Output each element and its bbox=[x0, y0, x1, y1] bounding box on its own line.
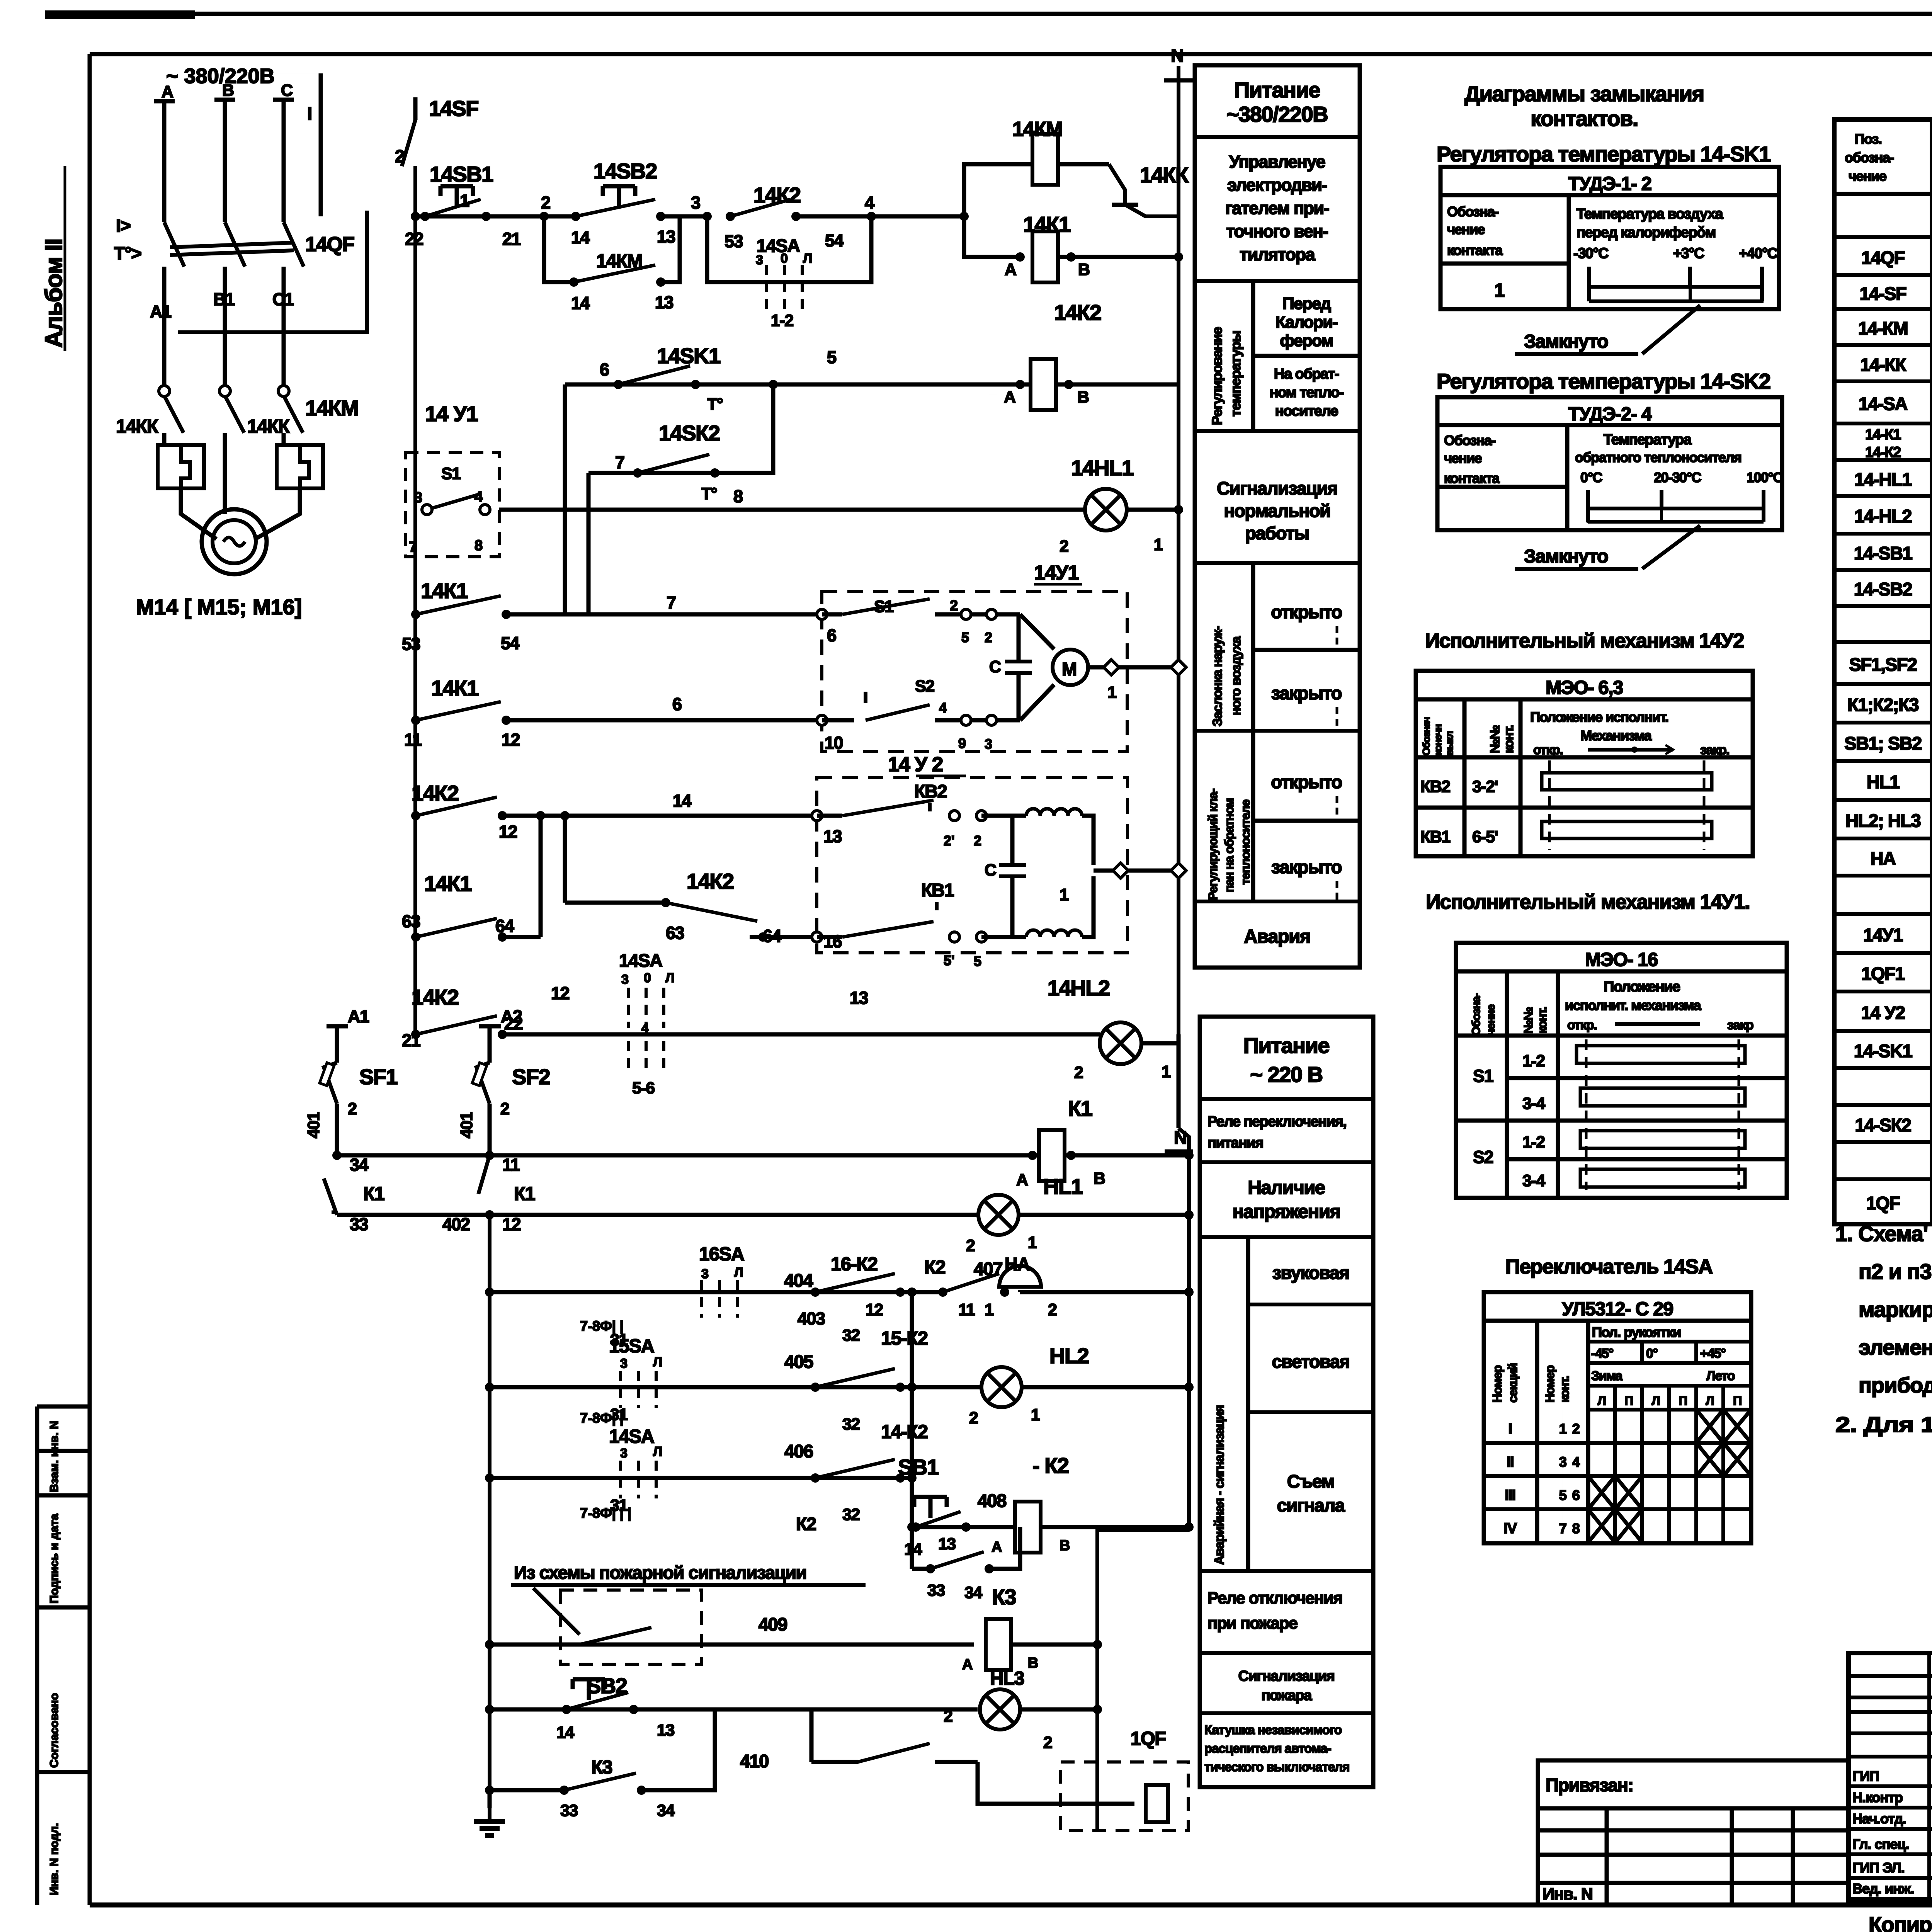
branch 14SK2 wire bbox=[588, 471, 711, 475]
dash tick under закрыто 1 bbox=[1336, 707, 1338, 729]
divider rotated cell Аварийная сигнализация bbox=[1246, 1237, 1250, 1571]
svg-text:1: 1 bbox=[1028, 1233, 1037, 1252]
vertical feed lower part bbox=[563, 816, 567, 903]
svg-text:В1: В1 bbox=[213, 289, 235, 309]
svg-text:3: 3 bbox=[620, 1356, 628, 1371]
svg-text:п2 и п3 схема аналогична за: п2 и п3 схема аналогична за исключением … bbox=[1859, 1259, 1932, 1284]
svg-text:0: 0 bbox=[781, 251, 788, 266]
svg-text:14-HL2: 14-HL2 bbox=[1854, 506, 1912, 526]
svg-text:1-2: 1-2 bbox=[771, 311, 793, 330]
upper small rows of signature part bbox=[1849, 1674, 1932, 1678]
svg-text:54: 54 bbox=[825, 231, 844, 250]
svg-text:2': 2' bbox=[944, 833, 955, 849]
svg-text:Наличие: Наличие bbox=[1248, 1177, 1325, 1198]
svg-text:2: 2 bbox=[1060, 537, 1068, 556]
svg-text:406: 406 bbox=[784, 1441, 813, 1461]
rung 409 wire bbox=[490, 1643, 974, 1647]
svg-text:1: 1 bbox=[1494, 280, 1504, 301]
thermal element 14KK pole C bbox=[277, 445, 323, 488]
svg-text:~ 220 В: ~ 220 В bbox=[1250, 1062, 1322, 1087]
svg-text:НА: НА bbox=[1871, 848, 1896, 869]
MEO-16 header row line bbox=[1456, 1034, 1787, 1038]
svg-text:14К2: 14К2 bbox=[687, 869, 734, 893]
svg-text:КВ1: КВ1 bbox=[1420, 828, 1450, 846]
signature row Н.контр bbox=[1849, 1806, 1932, 1810]
svg-text:Л: Л bbox=[665, 971, 675, 985]
svg-text:14-SВ2: 14-SВ2 bbox=[1854, 579, 1912, 599]
wire rung1 to coil block bbox=[871, 214, 964, 219]
svg-text:III: III bbox=[1505, 1487, 1515, 1503]
svg-text:ном тепло-: ном тепло- bbox=[1269, 384, 1344, 401]
svg-text:На обрат-: На обрат- bbox=[1274, 366, 1339, 382]
svg-text:тилятора: тилятора bbox=[1240, 245, 1315, 264]
svg-text:16-К2: 16-К2 bbox=[831, 1254, 878, 1275]
vertical bus 403 down bbox=[910, 1292, 914, 1569]
svg-text:ТУДЭ-1- 2: ТУДЭ-1- 2 bbox=[1568, 173, 1651, 194]
svg-text:№№: №№ bbox=[1521, 1007, 1535, 1034]
svg-text:5: 5 bbox=[974, 953, 981, 969]
svg-text:402: 402 bbox=[442, 1214, 470, 1234]
rung 13 wire bbox=[502, 1032, 1100, 1037]
svg-text:14КК: 14КК bbox=[1140, 163, 1189, 187]
svg-text:ного воздуха: ного воздуха bbox=[1229, 636, 1243, 716]
MEO-6.3 arrow bbox=[1588, 748, 1673, 752]
svg-text:А: А bbox=[162, 83, 173, 101]
svg-text:носителе: носителе bbox=[1275, 403, 1338, 419]
svg-text:№№: №№ bbox=[1488, 725, 1502, 753]
svg-text:М14 [ М15; М16]: М14 [ М15; М16] bbox=[136, 595, 302, 619]
svg-text:5': 5' bbox=[944, 952, 955, 968]
svg-text:конт.: конт. bbox=[1558, 1376, 1571, 1403]
svg-text:408: 408 bbox=[978, 1490, 1006, 1511]
junction to 14KM coil branch bbox=[959, 212, 969, 221]
svg-text:Съем: Съем bbox=[1287, 1471, 1335, 1492]
fire alarm contact bbox=[580, 1628, 651, 1645]
svg-text:откр.: откр. bbox=[1567, 1018, 1597, 1032]
MEO-16 dashed marks bbox=[1585, 1039, 1588, 1190]
svg-text:4: 4 bbox=[1572, 1454, 1580, 1470]
svg-text:КВ1: КВ1 bbox=[921, 880, 954, 900]
svg-text:С: С bbox=[989, 658, 1001, 676]
signature row Гл. спец. bbox=[1849, 1852, 1932, 1856]
svg-text:10: 10 bbox=[825, 733, 843, 753]
svg-text:1QF1: 1QF1 bbox=[1861, 963, 1905, 984]
svg-text:SF2: SF2 bbox=[512, 1065, 550, 1089]
contact of 14SB1 bbox=[420, 212, 430, 221]
svg-text:12: 12 bbox=[502, 1214, 521, 1234]
svg-text:НL2; НL3: НL2; НL3 bbox=[1845, 810, 1921, 831]
svg-text:2: 2 bbox=[969, 1409, 978, 1427]
contact 15-K2 bbox=[811, 1383, 820, 1392]
svg-text:401: 401 bbox=[457, 1112, 476, 1138]
svg-text:пан на обратном: пан на обратном bbox=[1222, 799, 1236, 893]
svg-text:64: 64 bbox=[495, 916, 514, 936]
junction on N rail bbox=[1171, 660, 1186, 675]
svg-text:Обознач: Обознач bbox=[1420, 717, 1432, 755]
svg-text:Обозна-: Обозна- bbox=[1444, 432, 1495, 448]
svg-text:Копир.: Копир. bbox=[1869, 1912, 1932, 1932]
contact 14K1 on rung 7 bbox=[411, 610, 420, 619]
svg-text:Регулятора температуры 14-SK1: Регулятора температуры 14-SK1 bbox=[1437, 142, 1770, 166]
start button 14SB2 bbox=[603, 184, 635, 189]
svg-text:В: В bbox=[1060, 1537, 1070, 1554]
svg-text:чение: чение bbox=[1485, 1004, 1497, 1036]
svg-text:14КК: 14КК bbox=[247, 416, 290, 437]
signature row Вед. инж. bbox=[1849, 1897, 1932, 1901]
svg-text:14SB1: 14SB1 bbox=[430, 162, 493, 186]
svg-text:11: 11 bbox=[404, 730, 422, 750]
wire rung1 down to 14K1 coil bbox=[964, 216, 1020, 257]
thermal element 14KK pole A bbox=[158, 445, 204, 488]
svg-text:SB1: SB1 bbox=[898, 1455, 939, 1479]
svg-text:14-SK1: 14-SK1 bbox=[1854, 1041, 1912, 1061]
svg-text:13: 13 bbox=[938, 1535, 956, 1553]
svg-text:Нач.отд.: Нач.отд. bbox=[1852, 1811, 1906, 1827]
svg-text:34: 34 bbox=[657, 1801, 675, 1820]
svg-text:Аварийная - сигнализация: Аварийная - сигнализация bbox=[1212, 1405, 1227, 1565]
wire lower to caps bbox=[935, 718, 1020, 723]
svg-text:Температура: Температура bbox=[1604, 432, 1692, 448]
svg-text:1: 1 bbox=[1162, 1063, 1170, 1081]
svg-text:3: 3 bbox=[756, 253, 763, 267]
svg-text:МЭО- 6,3: МЭО- 6,3 bbox=[1546, 677, 1623, 698]
svg-text:14: 14 bbox=[571, 293, 590, 313]
svg-text:14-SК2: 14-SК2 bbox=[1855, 1115, 1911, 1135]
svg-text:С1: С1 bbox=[272, 289, 294, 309]
svg-text:4: 4 bbox=[865, 193, 874, 213]
svg-text:2: 2 bbox=[966, 1236, 975, 1255]
svg-text:5: 5 bbox=[827, 347, 836, 367]
svg-text:15-К2: 15-К2 bbox=[881, 1328, 928, 1349]
lamp HL2 section2 bbox=[907, 1383, 917, 1392]
svg-text:63: 63 bbox=[402, 912, 420, 931]
svg-text:7: 7 bbox=[615, 452, 624, 472]
svg-text:13: 13 bbox=[657, 227, 675, 247]
svg-text:15SА: 15SА bbox=[609, 1336, 655, 1357]
svg-text:14: 14 bbox=[556, 1723, 574, 1742]
svg-text:14 У1: 14 У1 bbox=[425, 401, 478, 426]
svg-text:14SК2: 14SК2 bbox=[659, 421, 719, 445]
MEO-6.3 dashed travel marks bbox=[1548, 760, 1551, 850]
svg-text:А: А bbox=[962, 1656, 973, 1673]
svg-text:1: 1 bbox=[1559, 1421, 1567, 1437]
wire 403 to K2 contact and bell bbox=[912, 1290, 943, 1294]
branch 14SK2 vertical bbox=[587, 473, 591, 614]
svg-text:Вед. инж.: Вед. инж. bbox=[1852, 1881, 1914, 1896]
svg-text:Л: Л bbox=[803, 251, 812, 266]
svg-text:Т°: Т° bbox=[707, 395, 723, 413]
svg-text:14КМ: 14КМ bbox=[305, 396, 358, 420]
svg-text:К3: К3 bbox=[992, 1585, 1016, 1609]
svg-text:5: 5 bbox=[961, 629, 969, 645]
wire SF1 down bbox=[335, 1104, 339, 1155]
svg-text:12: 12 bbox=[866, 1301, 883, 1319]
svg-text:HL2: HL2 bbox=[1049, 1344, 1088, 1368]
lamp 14HL1 bbox=[1085, 489, 1127, 531]
svg-text:33: 33 bbox=[560, 1801, 578, 1820]
svg-text:Л: Л bbox=[1652, 1394, 1660, 1408]
coil 14K1 bbox=[1032, 231, 1058, 282]
svg-text:закрыто: закрыто bbox=[1271, 857, 1342, 877]
svg-text:чение: чение bbox=[1444, 450, 1482, 466]
lamp HL1 bbox=[978, 1195, 1019, 1235]
function column 1 outline bbox=[1195, 65, 1360, 968]
svg-text:14-КМ: 14-КМ bbox=[1858, 318, 1908, 338]
svg-text:405: 405 bbox=[784, 1351, 813, 1372]
release coil rect bbox=[1146, 1785, 1168, 1822]
svg-text:1: 1 bbox=[985, 1301, 993, 1319]
svg-text:33: 33 bbox=[927, 1581, 945, 1600]
svg-text:Л: Л bbox=[653, 1355, 662, 1369]
svg-text:открыто: открыто bbox=[1271, 772, 1342, 792]
svg-text:питания: питания bbox=[1207, 1135, 1263, 1151]
TUDE-1-2 row line bbox=[1440, 262, 1569, 266]
dashed box of release coil bbox=[1061, 1762, 1188, 1831]
svg-text:14: 14 bbox=[904, 1540, 922, 1559]
svg-text:КВ2: КВ2 bbox=[914, 781, 947, 801]
left rail of control ladder bbox=[413, 166, 417, 1034]
svg-text:В: В bbox=[222, 81, 234, 100]
svg-text:2: 2 bbox=[944, 1707, 952, 1726]
svg-text:Управленye: Управленye bbox=[1229, 152, 1325, 172]
svg-text:34: 34 bbox=[350, 1155, 369, 1175]
bypass vertical x1399 bbox=[539, 816, 543, 937]
svg-text:теплоносителе: теплоносителе bbox=[1238, 799, 1252, 885]
svg-text:маркировке цепей управления: маркировке цепей управления и позиционны… bbox=[1859, 1297, 1932, 1321]
contact 14K2 on rung 1 bbox=[726, 212, 735, 221]
svg-text:6: 6 bbox=[600, 360, 609, 379]
svg-text:33: 33 bbox=[350, 1214, 368, 1234]
TUDE-1-2 travel diagram bbox=[1587, 267, 1591, 301]
svg-text:S1: S1 bbox=[441, 464, 461, 483]
inner frame top line bbox=[90, 52, 1932, 56]
svg-text:1: 1 bbox=[1031, 1406, 1040, 1424]
function col row line 355 bbox=[1195, 135, 1360, 139]
svg-text:1. Схема' управления дана для: 1. Схема' управления дана для вентсистем… bbox=[1835, 1221, 1932, 1246]
svg-text:6: 6 bbox=[1572, 1487, 1580, 1503]
svg-text:4: 4 bbox=[474, 489, 483, 505]
signature row ГИП bbox=[1849, 1784, 1932, 1788]
svg-text:Положение исполнит.: Положение исполнит. bbox=[1530, 709, 1668, 725]
svg-text:54: 54 bbox=[501, 633, 520, 653]
svg-text:53: 53 bbox=[724, 231, 743, 251]
svg-text:перед калориферо̌м: перед калориферо̌м bbox=[1577, 224, 1716, 241]
table UP5312 outer bbox=[1484, 1292, 1751, 1543]
privyazan rows bbox=[1538, 1806, 1849, 1811]
svg-text:К2: К2 bbox=[924, 1257, 945, 1278]
rung 5 feed vertical from rung7 bbox=[563, 384, 567, 614]
svg-text:закрыто: закрыто bbox=[1271, 683, 1342, 703]
dash tick under открыто 2 bbox=[1336, 796, 1338, 818]
zamknuto arrow 2 bbox=[1642, 526, 1700, 569]
svg-text:14К1: 14К1 bbox=[421, 578, 468, 603]
wire coil K2 to N bbox=[1184, 1522, 1194, 1532]
motor M14 circle bbox=[202, 509, 267, 574]
actuator box 14U1 dashed outline bbox=[822, 592, 1127, 752]
svg-text:Зима: Зима bbox=[1591, 1369, 1623, 1383]
svg-text:HL1: HL1 bbox=[1043, 1174, 1083, 1199]
wire coil 14KM to 14KK contact bbox=[1058, 162, 1109, 167]
svg-text:Реле отключения: Реле отключения bbox=[1207, 1589, 1342, 1607]
wire 14SB1 to node 2 bbox=[486, 214, 576, 219]
svg-text:+3°С: +3°С bbox=[1673, 245, 1704, 262]
svg-text:14КК: 14КК bbox=[116, 416, 158, 437]
svg-text:II: II bbox=[1507, 1454, 1514, 1470]
svg-text:32: 32 bbox=[842, 1326, 860, 1345]
svg-text:409: 409 bbox=[759, 1614, 787, 1634]
svg-text:14К1: 14К1 bbox=[424, 871, 471, 896]
svg-text:К3: К3 bbox=[591, 1757, 612, 1778]
selector 14SA dashed marks bbox=[765, 265, 768, 309]
thermal contact 14KK in rung bbox=[1109, 164, 1125, 205]
svg-text:8: 8 bbox=[474, 537, 482, 554]
svg-text:14-К2: 14-К2 bbox=[881, 1422, 928, 1442]
wire lamp HL1 to N bbox=[1019, 1213, 1189, 1217]
self-hold bypass wire of 14KM bbox=[544, 216, 574, 282]
wire 14SB2 to node 3 bbox=[661, 214, 707, 219]
svg-text:2: 2 bbox=[1074, 1063, 1083, 1082]
wire to node 4 bbox=[796, 214, 871, 219]
svg-text:К1;К2;К3: К1;К2;К3 bbox=[1847, 694, 1918, 715]
svg-text:34: 34 bbox=[964, 1583, 982, 1602]
svg-text:1: 1 bbox=[1107, 683, 1116, 702]
svg-text:3-2': 3-2' bbox=[1472, 777, 1498, 796]
svg-text:14К2: 14К2 bbox=[412, 781, 459, 805]
wire motor to node 1 bbox=[1088, 665, 1179, 670]
svg-text:0: 0 bbox=[644, 971, 651, 985]
contact 14-K2 rung 406 bbox=[811, 1473, 820, 1483]
rung 7 wire bbox=[506, 612, 822, 617]
svg-text:Инв. N подл.: Инв. N подл. bbox=[48, 1823, 61, 1895]
svg-text:А1: А1 bbox=[150, 302, 171, 321]
svg-text:сигнала: сигнала bbox=[1277, 1495, 1345, 1515]
svg-text:3: 3 bbox=[1559, 1454, 1566, 1470]
svg-text:Замкнуто: Замкнуто bbox=[1524, 331, 1608, 352]
svg-text:14У1: 14У1 bbox=[1863, 925, 1903, 945]
svg-text:конечн: конечн bbox=[1432, 724, 1444, 755]
privyazan vertical dividers bbox=[1605, 1808, 1609, 1905]
svg-text:Номер: Номер bbox=[1490, 1365, 1504, 1403]
svg-text:3: 3 bbox=[701, 1267, 709, 1281]
svg-text:3: 3 bbox=[620, 1446, 628, 1461]
rung SB1 wire bbox=[912, 1525, 1189, 1529]
svg-text:14-К2: 14-К2 bbox=[1865, 444, 1901, 461]
SA bypass wire bbox=[707, 216, 871, 282]
MEO-6.3 col dividers bbox=[1463, 699, 1467, 856]
svg-text:11: 11 bbox=[958, 1301, 975, 1319]
svg-text:407: 407 bbox=[974, 1259, 1002, 1279]
svg-text:12: 12 bbox=[502, 730, 520, 750]
svg-text:закр: закр bbox=[1727, 1018, 1753, 1032]
ground symbol at rail bottom bbox=[488, 1790, 492, 1808]
svg-text:32: 32 bbox=[842, 1415, 860, 1434]
divider rotated cell Регулирующий клапан bbox=[1251, 731, 1255, 901]
svg-text:тического выключателя: тического выключателя bbox=[1204, 1760, 1349, 1774]
svg-text:SF1,SF2: SF1,SF2 bbox=[1849, 654, 1917, 675]
arrow from note to box bbox=[533, 1588, 580, 1634]
lamp 14HL2 bbox=[1100, 1022, 1141, 1064]
svg-text:ГИП: ГИП bbox=[1852, 1768, 1879, 1784]
svg-text:401: 401 bbox=[304, 1112, 323, 1138]
svg-text:14-К1: 14-К1 bbox=[1865, 427, 1901, 443]
svg-text:НА: НА bbox=[1005, 1254, 1030, 1274]
svg-text:1QF: 1QF bbox=[1866, 1193, 1900, 1213]
svg-text:пожара: пожара bbox=[1261, 1687, 1312, 1704]
wire from QF to control feed bbox=[319, 73, 323, 216]
nodes 2p 2 bbox=[949, 811, 959, 821]
svg-text:14SB2: 14SB2 bbox=[594, 159, 657, 183]
temperature contact 14SK2 bbox=[633, 468, 642, 478]
svg-text:А: А bbox=[1005, 260, 1016, 279]
svg-text:обратного теплоносителя: обратного теплоносителя bbox=[1575, 449, 1741, 465]
left rail lower section bbox=[488, 1215, 492, 1808]
coil K2 bbox=[1015, 1502, 1041, 1553]
svg-text:фером: фером bbox=[1280, 332, 1333, 350]
feedback box 14U1 dashed bbox=[405, 452, 499, 557]
TUDE-1-2 col divider bbox=[1567, 195, 1571, 309]
svg-text:8: 8 bbox=[1572, 1520, 1580, 1536]
svg-text:работы: работы bbox=[1245, 523, 1309, 543]
svg-text:3-4: 3-4 bbox=[1522, 1094, 1545, 1113]
svg-text:31: 31 bbox=[610, 1496, 628, 1515]
junction diamond on N rail at 2253 bbox=[1171, 863, 1186, 878]
svg-text:напряжения: напряжения bbox=[1233, 1201, 1340, 1222]
svg-text:А: А bbox=[1004, 388, 1015, 406]
svg-text:6: 6 bbox=[672, 694, 682, 714]
wire B phase down bbox=[223, 433, 227, 514]
svg-text:Привязан:: Привязан: bbox=[1546, 1775, 1633, 1795]
svg-text:Замкнуто: Замкнуто bbox=[1524, 546, 1608, 567]
svg-text:конт.: конт. bbox=[1535, 1007, 1549, 1034]
motor M of actuator delta bbox=[1020, 614, 1054, 649]
svg-text:12: 12 bbox=[499, 822, 517, 842]
svg-text:22: 22 bbox=[405, 229, 423, 249]
svg-text:+45°: +45° bbox=[1700, 1346, 1726, 1361]
svg-text:1: 1 bbox=[1060, 886, 1068, 904]
svg-text:Питание: Питание bbox=[1234, 78, 1320, 102]
rung 406 wire bbox=[490, 1476, 912, 1480]
svg-text:К1: К1 bbox=[1068, 1096, 1092, 1121]
svg-text:прибода.: прибода. bbox=[1859, 1373, 1932, 1397]
svg-text:63: 63 bbox=[666, 923, 684, 943]
svg-text:4: 4 bbox=[939, 700, 947, 716]
svg-text:Авария: Авария bbox=[1244, 926, 1310, 947]
inner frame bottom border bbox=[90, 1903, 1932, 1908]
svg-text:5-6: 5-6 bbox=[632, 1079, 655, 1097]
neutral rail N section 2 bbox=[1179, 1128, 1189, 1530]
svg-text:14К2: 14К2 bbox=[753, 183, 801, 207]
UP5312 конт divider bbox=[1562, 1410, 1563, 1543]
privyazan box bbox=[1538, 1760, 1849, 1905]
svg-text:14: 14 bbox=[571, 228, 590, 247]
svg-text:Поз.: Поз. bbox=[1855, 131, 1881, 147]
fire alarm dashed box bbox=[560, 1590, 702, 1664]
wire coil K3 to rail bbox=[1012, 1643, 1097, 1647]
zamknuto arrow 1 bbox=[1642, 305, 1700, 354]
svg-text:конт.: конт. bbox=[1502, 725, 1516, 753]
MEO-6.3 header row line bbox=[1416, 755, 1753, 760]
svg-text:2: 2 bbox=[974, 833, 981, 849]
svg-text:Регулятора температуры 14-SK2: Регулятора температуры 14-SK2 bbox=[1437, 369, 1770, 393]
wire to box 14U2 bbox=[750, 935, 817, 939]
svg-text:1: 1 bbox=[460, 191, 469, 211]
svg-text:7: 7 bbox=[667, 593, 676, 612]
svg-text:Н.контр: Н.контр bbox=[1852, 1789, 1903, 1805]
svg-text:0°С: 0°С bbox=[1580, 469, 1602, 485]
svg-text:НL1: НL1 bbox=[1867, 772, 1900, 792]
svg-text:- К2: - К2 bbox=[1032, 1453, 1069, 1478]
svg-text:Л: Л bbox=[653, 1444, 662, 1459]
